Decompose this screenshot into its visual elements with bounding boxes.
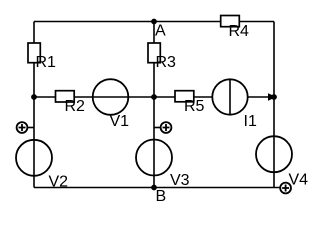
polarity plus mark of V3 (161, 122, 172, 133)
wire bottom rail (34, 187, 281, 189)
wire top rail (34, 21, 274, 23)
voltage source V1 (93, 79, 129, 130)
wire left rail (33, 22, 35, 188)
polarity plus mark of V4 (280, 183, 291, 194)
resistor R1 (28, 43, 56, 71)
svg-text:R3: R3 (156, 54, 177, 71)
svg-text:R4: R4 (229, 23, 250, 40)
voltage source V3 (136, 140, 190, 190)
svg-text:V3: V3 (170, 172, 190, 189)
svg-text:R2: R2 (65, 98, 86, 115)
wire middle horizontal left segment (34, 96, 212, 98)
resistor R4 (221, 16, 249, 41)
wire middle horizontal right segment (248, 96, 269, 98)
node A (151, 19, 166, 40)
svg-text:V1: V1 (110, 113, 130, 130)
wire stub to V2 plus mark (27, 127, 34, 129)
wire stub to V3 plus mark (154, 127, 161, 129)
voltage source V2 (16, 140, 68, 191)
svg-text:B: B (156, 188, 167, 205)
current direction arrow into right rail (268, 93, 277, 101)
node B (151, 185, 166, 205)
resistor R5 (175, 91, 205, 115)
svg-text:V2: V2 (49, 173, 69, 190)
junction left rail / middle wire (31, 94, 37, 100)
resistor R3 (148, 43, 176, 71)
voltage source V4 (256, 136, 308, 188)
wire middle vertical (153, 22, 155, 188)
svg-text:R5: R5 (184, 98, 205, 115)
polarity plus mark of V2 (17, 122, 28, 133)
current source I1 (212, 79, 257, 130)
junction middle rail / middle wire (151, 94, 157, 100)
svg-text:R1: R1 (36, 54, 57, 71)
svg-text:A: A (155, 23, 166, 40)
wire right rail (273, 22, 275, 188)
junction right rail / middle wire (271, 94, 277, 100)
svg-text:I1: I1 (244, 113, 257, 130)
resistor R2 (56, 91, 86, 115)
